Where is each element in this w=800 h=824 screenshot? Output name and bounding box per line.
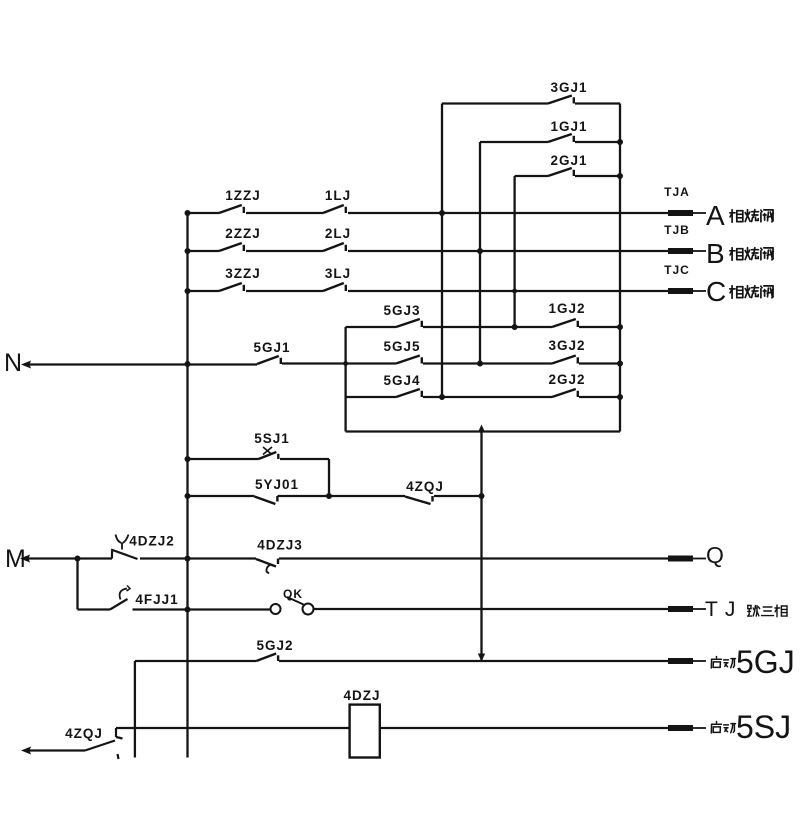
wire coil row left <box>116 727 350 729</box>
contact 4ZQJ mid <box>405 497 431 505</box>
junction row A x442 <box>439 210 445 216</box>
terminal arrow N <box>21 361 31 369</box>
wire row 5SJ1 <box>188 458 259 460</box>
svg-text:TJA: TJA <box>664 185 690 199</box>
wire 3GJ1 branch <box>442 102 548 104</box>
wire left bus x187 <box>186 213 188 758</box>
svg-text:3GJ2: 3GJ2 <box>548 338 585 353</box>
wire row B <box>188 250 220 252</box>
node start-5GJ label <box>711 657 721 669</box>
svg-text:5GJ5: 5GJ5 <box>383 339 420 354</box>
contact 1LJ <box>323 205 344 213</box>
svg-text:5GJ4: 5GJ4 <box>383 373 420 388</box>
contact 5SJ1 <box>259 452 277 459</box>
svg-text:2ZZJ: 2ZZJ <box>225 226 261 241</box>
terminal TJC <box>668 288 693 294</box>
contact 4DZJ3 <box>256 559 276 567</box>
wire row A <box>188 212 220 214</box>
wire M row <box>28 557 112 559</box>
svg-text:TJB: TJB <box>664 223 690 237</box>
junction bus row C <box>185 288 191 294</box>
svg-text:5GJ3: 5GJ3 <box>383 303 420 318</box>
svg-text:N: N <box>4 349 22 377</box>
contact 2LJ <box>323 243 344 251</box>
junction arrow bottom x481 <box>478 654 485 662</box>
svg-text:5SJ: 5SJ <box>736 709 791 745</box>
wire vertical from 2GJ1 to node x514 <box>513 176 515 327</box>
contact 3LJ <box>323 283 344 291</box>
svg-text:4FJJ1: 4FJJ1 <box>135 592 178 607</box>
svg-text:TJC: TJC <box>664 263 690 277</box>
wire row 5YJ01 <box>188 495 255 497</box>
wire 5GJ2 left vertical <box>134 661 136 758</box>
terminal 5SJ start <box>668 725 693 731</box>
junction bus row B <box>185 248 191 254</box>
contact 2GJ1 <box>548 168 572 176</box>
svg-text:2GJ2: 2GJ2 <box>548 372 585 387</box>
junction row3 x442 <box>439 394 445 400</box>
contact 2ZZJ <box>219 243 242 251</box>
wire right bus x620 <box>619 104 621 432</box>
wire 1GJ1 branch <box>480 141 548 143</box>
wire block row1 <box>346 326 396 328</box>
terminal TJB <box>668 248 693 254</box>
svg-text:QK: QK <box>283 587 303 601</box>
svg-text:4ZQJ: 4ZQJ <box>65 726 103 741</box>
svg-text:C: C <box>706 276 726 307</box>
wire 2GJ1 branch <box>515 175 548 177</box>
junction bus row A <box>185 210 191 216</box>
terminal 5GJ start <box>668 658 693 664</box>
svg-text:Q: Q <box>706 542 724 568</box>
time mark 5SJ1 <box>263 447 272 455</box>
contact 3GJ1 <box>548 96 572 104</box>
svg-text:4DZJ3: 4DZJ3 <box>257 538 303 553</box>
junction row1 right <box>617 324 623 330</box>
svg-text:2LJ: 2LJ <box>325 226 351 241</box>
junction row2 x480 <box>477 361 483 367</box>
junction row1 x514 <box>512 324 518 330</box>
contact 2GJ2 <box>552 389 576 397</box>
junction row2 right <box>617 361 623 367</box>
contact 5GJ2 <box>256 654 276 662</box>
wire vertical from 3GJ1 to node x442 <box>441 104 443 398</box>
wire N row <box>29 363 257 365</box>
contact 1GJ2 <box>552 319 576 327</box>
contact 5GJ1 <box>257 356 279 364</box>
svg-text:4DZJ2: 4DZJ2 <box>129 534 175 549</box>
contact 3GJ2 <box>552 356 576 364</box>
wire coil row right <box>380 727 668 729</box>
junction x481 5YJ01 <box>479 493 485 499</box>
junction 5SJ1-5YJ01 <box>326 493 332 499</box>
contact 4DZJ2 <box>111 551 113 559</box>
wire block left bracket <box>344 327 346 432</box>
svg-text:4DZJ: 4DZJ <box>343 688 380 703</box>
junction bus TJ row <box>185 607 191 613</box>
junction arrow top x481 <box>478 425 485 433</box>
junction 2GJ1-right <box>617 173 623 179</box>
contact 5GJ4 <box>396 389 420 397</box>
svg-text:5YJ01: 5YJ01 <box>255 477 299 492</box>
contact 5GJ3 <box>396 319 420 327</box>
svg-text:3LJ: 3LJ <box>325 266 351 281</box>
contact 5YJ01 <box>254 497 275 505</box>
wire row C <box>188 290 220 292</box>
contact 5GJ5 <box>396 356 420 364</box>
svg-text:1GJ1: 1GJ1 <box>550 119 587 134</box>
terminal Q <box>668 556 693 562</box>
wire long vertical x481 <box>480 432 482 662</box>
junction M branch <box>75 556 81 562</box>
wire block row3 <box>346 396 396 398</box>
node start-5SJ label <box>711 722 721 734</box>
svg-text:1ZZJ: 1ZZJ <box>225 188 261 203</box>
wire QK to TJ terminal <box>314 608 669 610</box>
svg-text:1GJ2: 1GJ2 <box>548 301 585 316</box>
contact 1ZZJ <box>219 205 242 213</box>
junction row2 x345 <box>343 361 348 366</box>
svg-text:1LJ: 1LJ <box>325 188 351 203</box>
svg-text:5GJ1: 5GJ1 <box>253 340 290 355</box>
junction bus 5SJ1 <box>185 456 191 462</box>
svg-text:3ZZJ: 3ZZJ <box>225 266 261 281</box>
junction row B x480 <box>477 248 483 254</box>
svg-text:4ZQJ: 4ZQJ <box>406 479 444 494</box>
wire vertical from 1GJ1 to node x480 <box>479 142 481 364</box>
junction row3 right <box>617 394 623 400</box>
contact 4ZQJ bottom <box>85 741 115 751</box>
wire block bottom <box>346 430 620 432</box>
junction bus M <box>185 556 191 562</box>
wire 4ZQJ stub <box>29 749 85 751</box>
terminal TJA <box>668 210 693 216</box>
contact 3ZZJ <box>219 283 242 291</box>
svg-text:5SJ1: 5SJ1 <box>254 431 290 446</box>
junction bus N <box>185 361 191 367</box>
contact 4FJJ1 <box>110 599 128 610</box>
contact 1GJ1 <box>548 134 572 142</box>
wire row 5GJ2 <box>135 660 256 662</box>
svg-text:TJ: TJ <box>705 598 742 621</box>
terminal arrow M <box>20 555 30 563</box>
svg-text:5GJ2: 5GJ2 <box>256 638 293 653</box>
svg-text:5GJ: 5GJ <box>736 644 795 680</box>
svg-text:B: B <box>706 238 725 269</box>
svg-text:3GJ1: 3GJ1 <box>550 80 587 95</box>
junction row C x514 <box>512 289 517 294</box>
terminal arrow 4ZQJ <box>21 747 31 755</box>
wire M to 4FJJ1 branch <box>76 559 78 610</box>
wire 5SJ1 to 5YJ01 corner <box>328 459 330 496</box>
junction 1GJ1-right <box>617 139 623 145</box>
svg-text:A: A <box>706 200 725 231</box>
wire block row2 <box>346 362 396 364</box>
coil 4DZJ <box>350 705 380 758</box>
terminal TJ <box>668 606 693 612</box>
junction bus 5YJ01 <box>185 493 191 499</box>
switch QK <box>271 604 281 614</box>
svg-text:2GJ1: 2GJ1 <box>550 153 587 168</box>
wire 4FJJ1 to QK <box>133 608 271 610</box>
